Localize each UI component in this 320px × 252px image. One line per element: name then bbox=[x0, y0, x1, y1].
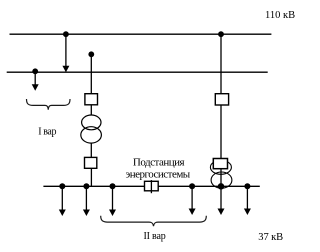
node on bus W2 (load tap) bbox=[32, 68, 38, 74]
wire QF3 to system transformer T2 bbox=[220, 105, 222, 159]
node T2 junction on W3 bbox=[218, 183, 224, 189]
bus W1 110 kV bbox=[10, 33, 272, 35]
load arrow 1 bbox=[59, 186, 66, 216]
breaker QF3 bbox=[215, 94, 228, 105]
svg-text:Подстанция: Подстанция bbox=[133, 157, 185, 169]
bus W2 110 kV bbox=[7, 71, 268, 73]
node load 3 on W3 bbox=[110, 183, 116, 189]
load arrow 3 bbox=[109, 186, 116, 216]
transformer T2 tap box bbox=[213, 159, 227, 169]
node load 6 on W3 bbox=[244, 183, 250, 189]
node load 4 on W3 bbox=[189, 183, 195, 189]
brace I variant bbox=[27, 99, 71, 110]
load arrow 2 bbox=[83, 186, 90, 216]
transformer T2 windings bbox=[210, 160, 232, 188]
svg-text:I вар: I вар bbox=[38, 127, 56, 138]
breaker QF1 bbox=[85, 94, 98, 105]
load arrow from W2 bbox=[32, 71, 39, 90]
svg-text:энергосистемы: энергосистемы bbox=[125, 168, 190, 180]
wire arrow from W1 to W2 bbox=[62, 34, 69, 72]
bus W3 37 kV bbox=[43, 185, 259, 187]
breaker QF2 bbox=[85, 157, 97, 168]
load arrow 4 bbox=[189, 186, 196, 215]
node on bus W1 (system branch) bbox=[218, 31, 224, 37]
section switch on bus W3 bbox=[145, 180, 159, 193]
wire node A to breaker QF1 bbox=[90, 54, 92, 93]
brace II variant bbox=[101, 216, 207, 226]
transformer T1 bbox=[81, 115, 102, 143]
svg-text:II вар: II вар bbox=[144, 231, 166, 242]
wire QF2 to bus W3 bbox=[90, 168, 92, 186]
svg-text:37 кВ: 37 кВ bbox=[258, 232, 283, 243]
svg-text:110 кВ: 110 кВ bbox=[265, 10, 295, 21]
node on bus W1 (coupling feeder) bbox=[63, 31, 69, 37]
node load 2 on W3 bbox=[83, 183, 89, 189]
node load 1 on W3 bbox=[59, 183, 65, 189]
wire T2 to bus W3 bbox=[220, 169, 222, 187]
wire T1 to breaker QF2 bbox=[90, 143, 92, 157]
wire QF1 to transformer T1 bbox=[90, 105, 92, 115]
load arrow 5 bbox=[218, 186, 225, 215]
load arrow 6 bbox=[244, 186, 251, 215]
node A (tap above W2, transformer branch) bbox=[88, 51, 94, 57]
wire W1 to breaker QF3 bbox=[220, 34, 222, 93]
